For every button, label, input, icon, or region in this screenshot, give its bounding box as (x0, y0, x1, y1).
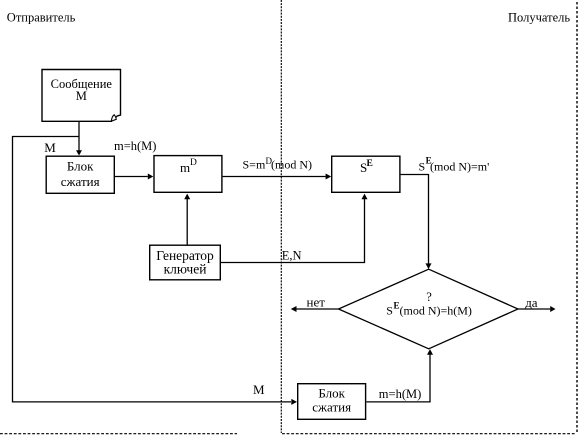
svg-text:М: М (76, 89, 87, 103)
wire diamond yes (right) (518, 308, 550, 310)
svg-text:да: да (525, 295, 538, 310)
wire diamond no (left) (296, 308, 338, 310)
svg-text:E: E (367, 159, 373, 169)
svg-text:m=h(M): m=h(M) (379, 387, 421, 401)
svg-text:сжатия: сжатия (61, 174, 100, 189)
svg-text:?: ? (426, 290, 432, 304)
wire B1 to mD (115, 176, 148, 178)
svg-text:Отправитель: Отправитель (7, 11, 76, 25)
document fold flap (111, 115, 116, 122)
svg-text:М: М (44, 140, 56, 155)
dashed border right (576, 2, 578, 434)
dashed border bottom-right segment (282, 433, 575, 435)
svg-text:(mod N)=h(M): (mod N)=h(M) (400, 303, 472, 317)
block B1 Блок сжатия (46, 156, 114, 193)
wire SE to diamond top (401, 175, 429, 264)
dashed border bottom-left segment (0, 433, 237, 435)
svg-text:М: М (253, 382, 265, 397)
wire document to compression block (78, 121, 80, 151)
block B3 S^E (332, 156, 400, 192)
wire keygen to mD (186, 199, 188, 245)
svg-text:ключей: ключей (164, 262, 207, 277)
dashed divider (sender/receiver boundary) (280, 0, 282, 433)
block B4 Генератор ключей (150, 245, 221, 280)
svg-text:Блок: Блок (318, 385, 345, 400)
svg-text:E,N: E,N (282, 249, 302, 263)
svg-text:S: S (419, 160, 426, 174)
block B5 Блок сжатия (bottom) (298, 384, 366, 420)
svg-text:S=m: S=m (243, 158, 266, 172)
diamond decision (339, 269, 519, 349)
svg-text:S: S (386, 303, 393, 317)
svg-text:D: D (190, 158, 197, 168)
svg-text:Генератор: Генератор (156, 248, 214, 263)
svg-text:(mod N)=m': (mod N)=m' (430, 160, 489, 174)
wire M feedback (left long path to bottom block) (13, 137, 292, 402)
wire B5 to diamond bottom (366, 354, 430, 402)
wire keygen to SE (221, 199, 365, 263)
document Сообщение М (42, 70, 121, 122)
block B2 m^D (154, 156, 222, 193)
svg-text:m: m (180, 160, 190, 175)
svg-text:сжатия: сжатия (312, 400, 351, 415)
wire mD to SE (223, 176, 326, 178)
svg-text:Блок: Блок (67, 159, 94, 174)
svg-text:Получатель: Получатель (508, 11, 570, 25)
svg-text:m=h(M): m=h(M) (114, 139, 156, 153)
svg-text:(mod N): (mod N) (271, 158, 312, 172)
svg-text:нет: нет (307, 295, 326, 310)
